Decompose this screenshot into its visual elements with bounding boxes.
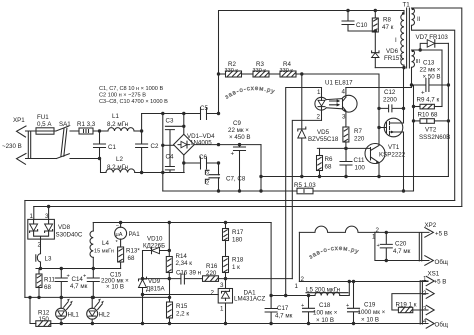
node after R4: [300, 72, 303, 75]
optocoupler U1: [315, 80, 357, 127]
svg-text:C13: C13: [423, 60, 435, 67]
resistor R19: [396, 302, 429, 313]
wire U1 pin1 loop: [286, 88, 322, 296]
shunt regulator DA1: [143, 279, 266, 324]
svg-text:100: 100: [355, 165, 366, 172]
wire U1 pin4 to aux: [346, 85, 412, 88]
svg-text:R1 3,3: R1 3,3: [77, 121, 96, 128]
svg-text:220: 220: [354, 136, 365, 143]
resistor R13: [118, 247, 141, 269]
wire left edge loop: [24, 201, 26, 298]
node x261 on 191 line: [259, 189, 262, 192]
capacitor C7 C8: [205, 163, 245, 191]
svg-text:II: II: [417, 16, 421, 23]
diode VD6: [372, 31, 404, 68]
SECTION: switcher: [286, 2, 462, 296]
node bridge top tap: [182, 112, 185, 115]
svg-text:VD7 FR103: VD7 FR103: [416, 34, 449, 41]
wire L2 out: [135, 172, 184, 174]
svg-text:4: 4: [342, 89, 346, 96]
wire VD7 cathode down: [447, 43, 449, 176]
node C11 bottom: [344, 175, 347, 178]
node VT1 emitter bottom: [377, 175, 380, 178]
wire secondary lower bus y206: [34, 206, 462, 208]
wire VD9 column: [142, 251, 144, 324]
svg-text:HL1: HL1: [68, 312, 80, 319]
wire XP2 gnd stub: [375, 232, 429, 260]
wire secondary mid rail y268: [36, 268, 121, 270]
capacitor C2: [136, 114, 159, 173]
zener VD9: [139, 277, 166, 292]
svg-text:R18: R18: [232, 257, 244, 264]
svg-text:+: +: [301, 303, 304, 309]
svg-text:R10 68: R10 68: [418, 112, 439, 119]
wire VD6 to T1: [375, 67, 404, 69]
wire VD8 pin3 lead: [48, 207, 50, 220]
connector XP1: [2, 117, 31, 164]
wire minus column: [162, 114, 164, 192]
svg-text:2,34 к: 2,34 к: [176, 260, 193, 267]
wire fb opto line: [226, 278, 293, 280]
node R15 bottom: [168, 322, 171, 325]
resistor R16: [203, 263, 219, 281]
svg-text:L1: L1: [112, 113, 119, 120]
resistor R17: [223, 221, 244, 257]
svg-text:22 мк ×: 22 мк ×: [420, 67, 441, 74]
resistor R8: [372, 11, 393, 33]
node L3 bottom: [39, 267, 42, 270]
wire hump line to XP2: [299, 226, 375, 232]
svg-text:C11: C11: [354, 157, 365, 164]
node VT2 source bottom: [402, 189, 405, 192]
svg-text:+5 В: +5 В: [435, 231, 448, 238]
svg-text:R13*: R13*: [126, 248, 140, 255]
node C15 bottom: [92, 296, 95, 299]
wire winding II bottom to right: [412, 25, 455, 200]
T1 winding I: [395, 11, 404, 68]
node R8 bottom: [374, 29, 377, 32]
node R18 bottom: [224, 277, 227, 280]
svg-text:8,2 мГн: 8,2 мГн: [107, 164, 128, 171]
capacitor C18: [301, 294, 338, 325]
svg-text:C1: C1: [108, 144, 116, 151]
svg-text:1 к: 1 к: [232, 264, 240, 271]
svg-text:XP1: XP1: [13, 117, 25, 124]
capacitor C11: [340, 148, 365, 176]
wire L4 top rail: [93, 222, 271, 224]
ammeter PA1: [115, 223, 141, 248]
wire bottom AC: [26, 158, 57, 160]
wire plus5 rail: [299, 281, 428, 283]
svg-text:1: 1: [317, 89, 321, 96]
svg-text:VD6: VD6: [386, 48, 399, 55]
transistor VT1: [365, 108, 406, 176]
svg-text:+: +: [421, 90, 425, 97]
LED HL1: [56, 297, 80, 323]
svg-text:BZV55C18: BZV55C18: [308, 136, 339, 143]
svg-text:68: 68: [325, 164, 332, 171]
node HL1 bottom: [60, 322, 63, 325]
svg-text:2: 2: [317, 114, 321, 121]
svg-text:μA: μA: [116, 232, 123, 238]
svg-text:2: 2: [301, 276, 305, 283]
inductor L4: [90, 223, 114, 269]
svg-text:R3: R3: [256, 61, 264, 68]
svg-text:C10: C10: [356, 22, 368, 29]
svg-text:+: +: [346, 303, 349, 309]
node aux left: [410, 83, 413, 86]
node R6 bottom: [318, 175, 321, 178]
node C14 top: [60, 267, 63, 270]
fuse FU1: [36, 114, 54, 134]
svg-text:+: +: [67, 274, 70, 280]
resistor R7: [343, 127, 365, 148]
svg-text:× 10 В: × 10 В: [361, 317, 379, 324]
wire AC top run: [142, 113, 219, 115]
svg-text:180: 180: [232, 237, 243, 244]
svg-text:III: III: [416, 59, 421, 65]
node L2/C2: [140, 171, 143, 174]
wire VD8 pin1 lead: [33, 207, 35, 220]
svg-text:Общ: Общ: [435, 259, 448, 266]
svg-text:C3: C3: [166, 118, 174, 125]
svg-text:47 к: 47 к: [382, 24, 394, 31]
node L5 out: [348, 280, 351, 283]
SECTION: feedback: [139, 221, 293, 325]
svg-text:C5: C5: [200, 105, 208, 112]
diode VD10: [143, 236, 170, 254]
wire winding III top right column: [441, 50, 443, 107]
svg-text:R15: R15: [176, 303, 188, 310]
svg-text:S30D40C: S30D40C: [56, 232, 83, 239]
node C5 line: [217, 112, 220, 115]
svg-text:C2: C2: [151, 143, 159, 150]
capacitor C17: [265, 305, 292, 320]
switch SA1: [56, 121, 100, 159]
capacitor C14: [55, 269, 87, 298]
wire C16 line: [143, 278, 226, 280]
wire top rail: [219, 11, 405, 114]
svg-text:C14: C14: [72, 276, 84, 283]
diode VD7: [416, 34, 449, 50]
capacitor C13: [412, 60, 449, 97]
svg-text:2: 2: [211, 290, 215, 297]
capacitor C10: [342, 11, 375, 32]
node aux right: [447, 83, 450, 86]
wire U1 pin2 loop: [292, 120, 321, 278]
svg-text:3: 3: [220, 282, 224, 289]
node HL1 top: [60, 296, 63, 299]
resistor R11: [36, 269, 55, 298]
svg-text:R4: R4: [283, 61, 291, 68]
diode bridge VD1-VD4: [174, 133, 216, 155]
svg-text:C16 39 н: C16 39 н: [176, 270, 201, 277]
svg-text:VD9: VD9: [148, 278, 161, 285]
inductor L5: [306, 282, 349, 296]
svg-text:FU1: FU1: [37, 114, 49, 121]
svg-text:2: 2: [376, 227, 380, 234]
node R10 left: [412, 119, 415, 122]
svg-text:R11: R11: [44, 277, 55, 284]
capacitor C20: [377, 231, 411, 262]
node T1 primary bottom: [402, 66, 405, 69]
capacitor C16: [176, 270, 201, 285]
svg-text:100 мк ×: 100 мк ×: [313, 310, 338, 317]
wire bridge bottom stub: [183, 155, 185, 173]
svg-text:C7, C8: C7, C8: [226, 176, 246, 183]
node gate column C12: [377, 107, 380, 110]
svg-text:C19: C19: [364, 302, 376, 309]
inductor L2: [106, 156, 135, 173]
SECTION: secondary-left: [25, 201, 428, 327]
connector XS1: [420, 271, 448, 329]
SECTION: notes: [99, 85, 360, 261]
svg-text:VT2: VT2: [425, 127, 437, 134]
svg-text:U1 EL817: U1 EL817: [325, 80, 353, 87]
svg-text:1: 1: [220, 306, 224, 313]
capacitor C4: [165, 145, 174, 172]
wire rail to plus column: [270, 223, 272, 324]
resistor R6: [317, 148, 333, 176]
capacitor C1: [94, 131, 117, 159]
svg-text:C17: C17: [277, 305, 289, 312]
svg-text:3: 3: [423, 306, 427, 313]
node pin1 column: [284, 294, 287, 297]
svg-text:R7: R7: [354, 128, 362, 135]
wire hump feed column: [298, 232, 300, 281]
node C10 top: [346, 9, 349, 12]
resistor R12: [28, 296, 51, 327]
node winding III top branch: [419, 48, 422, 51]
svg-text:I: I: [395, 37, 397, 44]
svg-text:C20: C20: [395, 241, 407, 248]
capacitor C12: [379, 89, 404, 112]
wire secondary upper bus y200: [25, 200, 455, 202]
svg-text:68: 68: [44, 284, 51, 291]
LED HL2: [87, 297, 111, 323]
svg-text:R2: R2: [228, 61, 236, 68]
node VD10 right: [168, 249, 171, 252]
svg-text:XS1: XS1: [428, 271, 440, 278]
svg-text:R14: R14: [176, 253, 188, 260]
svg-text:68: 68: [128, 255, 135, 262]
node R8 top: [374, 9, 377, 12]
svg-text:× 10 В: × 10 В: [316, 317, 334, 324]
capacitor C3: [165, 118, 185, 146]
svg-text:Общ: Общ: [435, 322, 448, 329]
node x261 on 176 line: [259, 175, 262, 178]
svg-text:× 10 В: × 10 В: [106, 284, 124, 291]
node VD5 bottom: [300, 175, 303, 178]
SECTION: output: [265, 222, 448, 329]
node R2 line: [217, 72, 220, 75]
svg-text:1: 1: [295, 283, 299, 290]
resistor R9: [414, 97, 443, 109]
svg-text:2,2 к: 2,2 к: [176, 311, 189, 318]
dual diode VD8: [28, 213, 83, 249]
svg-text:C12: C12: [384, 89, 396, 96]
node R14 bottom: [168, 277, 171, 280]
wire bottom rail: [51, 323, 428, 325]
node C11 top: [344, 147, 347, 150]
svg-text:KSP2222: KSP2222: [379, 152, 406, 159]
svg-text:× 450 В: × 450 В: [229, 134, 251, 141]
svg-text:PA1: PA1: [129, 231, 141, 238]
inductor L3: [36, 239, 52, 268]
watermark arc 2: [308, 245, 360, 261]
svg-text:L3: L3: [45, 256, 52, 263]
svg-text:Д815А: Д815А: [146, 286, 166, 293]
wire XS1 pin1: [421, 280, 428, 282]
T1 winding III: [412, 50, 443, 85]
wire base line: [317, 147, 370, 149]
wire LED rail y297: [25, 296, 170, 298]
resistor R10: [414, 112, 449, 124]
resistor R3: [242, 61, 270, 77]
svg-text:× 50 В: × 50 В: [423, 74, 441, 81]
capacitor C15: [83, 269, 129, 298]
transformer T1 core: [403, 2, 411, 69]
node HL2 top: [91, 296, 94, 299]
node VT2 gate: [377, 126, 380, 129]
wire R1 to L1: [93, 130, 108, 132]
svg-text:4,7 мк: 4,7 мк: [70, 283, 88, 290]
svg-text:VT1: VT1: [388, 144, 400, 151]
svg-text:HL2: HL2: [99, 312, 111, 319]
resistor R14: [166, 253, 192, 279]
SECTION: bridge: [142, 105, 414, 194]
svg-text:0,5 А: 0,5 А: [37, 121, 52, 128]
svg-text:~230 В: ~230 В: [2, 143, 22, 150]
svg-text:C3–C8, C10 4700 × 1000 В: C3–C8, C10 4700 × 1000 В: [99, 99, 168, 105]
capacitor C6: [184, 154, 219, 169]
resistor R18: [223, 257, 244, 279]
svg-text:R8: R8: [383, 17, 391, 24]
svg-text:T1: T1: [403, 2, 411, 9]
wire bridge top to AC line: [183, 114, 185, 135]
wire R9 R10 left column: [413, 85, 415, 191]
wire minus return: [163, 190, 297, 192]
svg-text:8,2 мГн: 8,2 мГн: [107, 121, 128, 128]
wire R4 to gate column: [296, 74, 379, 108]
wire XP2 top pin: [375, 231, 429, 233]
inductor L1: [107, 113, 134, 131]
svg-text:L4: L4: [102, 240, 109, 247]
node PA1 top: [119, 221, 122, 224]
wire XS1 pin2 R19 loop: [392, 294, 428, 310]
node C1 bottom: [98, 157, 101, 160]
node C12 right: [402, 107, 405, 110]
svg-text:1000 мк ×: 1000 мк ×: [358, 309, 386, 316]
svg-text:+5 В: +5 В: [434, 279, 447, 286]
svg-text:LM431ACZ: LM431ACZ: [234, 296, 266, 303]
node R10 right on VD7 column: [447, 119, 450, 122]
T1 winding II: [412, 8, 421, 26]
node VD8 pin3 tap: [47, 205, 50, 208]
resistor R2: [219, 61, 242, 77]
svg-text:4: 4: [423, 318, 427, 325]
svg-text:+: +: [231, 151, 235, 158]
svg-text:КД226Б: КД226Б: [143, 242, 165, 249]
capacitor C19: [346, 280, 386, 325]
resistor R5: [294, 182, 316, 194]
note caps values: [99, 86, 168, 105]
svg-text:C2 100 н × ~275 В: C2 100 н × ~275 В: [99, 93, 146, 99]
node C9 bottom: [238, 189, 241, 192]
svg-text:2: 2: [206, 171, 209, 177]
node VD9 top: [141, 277, 144, 280]
MOSFET VT2: [379, 68, 450, 191]
wire bridge plus out: [194, 144, 261, 146]
resistor R1: [77, 121, 96, 134]
svg-text:−: −: [116, 223, 119, 229]
node R11 bottom: [37, 296, 40, 299]
node HL2 bottom: [91, 322, 94, 325]
node C6 x218: [217, 161, 220, 164]
svg-text:4,7 мк: 4,7 мк: [393, 248, 411, 255]
svg-text:FR157: FR157: [384, 55, 403, 62]
svg-text:SSS2N60B: SSS2N60B: [419, 134, 450, 141]
svg-text:VD8: VD8: [58, 224, 71, 231]
zener VD5: [298, 74, 339, 177]
svg-text:C9: C9: [233, 120, 241, 127]
node C14 bottom: [60, 296, 63, 299]
wire winding II top to right edge: [412, 8, 462, 207]
wire source line y176: [261, 176, 448, 178]
node R9 left: [412, 105, 415, 108]
wire step down: [100, 159, 107, 173]
capacitor C9: [228, 120, 251, 191]
wire plus corner down: [260, 145, 262, 191]
svg-text:2: 2: [206, 180, 209, 186]
watermark arc 1: [224, 85, 276, 101]
wire L5 line: [271, 295, 315, 297]
node VD10 column top: [168, 221, 171, 224]
node R7 bottom: [344, 147, 347, 150]
wire top AC: [26, 130, 57, 132]
node VD9 bottom: [141, 322, 144, 325]
svg-text:L2: L2: [116, 156, 123, 163]
svg-text:2200: 2200: [383, 97, 397, 104]
node plus rail x218: [217, 143, 220, 146]
SECTION: mid-bus: [25, 177, 462, 207]
wire R5 right to corner: [313, 190, 414, 193]
svg-text:C1, C7, C8 10 н × 1000 В: C1, C7, C8 10 н × 1000 В: [99, 86, 163, 92]
svg-text:VD5: VD5: [317, 129, 330, 136]
node C9 top: [238, 143, 241, 146]
resistor R4: [269, 61, 296, 77]
svg-text:22 мк ×: 22 мк ×: [228, 127, 249, 134]
svg-text:4,7 мк: 4,7 мк: [275, 313, 293, 320]
svg-text:+: +: [83, 274, 86, 280]
svg-text:+: +: [377, 243, 380, 249]
node DA1 bottom: [224, 322, 227, 325]
wire bridge left stub: [163, 144, 174, 146]
svg-text:C18: C18: [319, 302, 331, 309]
svg-text:15 мкГн: 15 мкГн: [94, 249, 114, 255]
node plus column junction: [269, 294, 272, 297]
capacitor C5: [200, 105, 208, 120]
svg-text:R17: R17: [232, 229, 244, 236]
wire VD10 column: [168, 223, 170, 257]
node C17 bottom: [269, 322, 272, 325]
SECTION: primary-input: [2, 113, 184, 174]
wire L1 out: [134, 130, 142, 132]
svg-text:3: 3: [342, 114, 346, 121]
node x218 bottom: [217, 189, 220, 192]
connector XP2: [419, 222, 448, 266]
resistor R15: [167, 279, 190, 324]
